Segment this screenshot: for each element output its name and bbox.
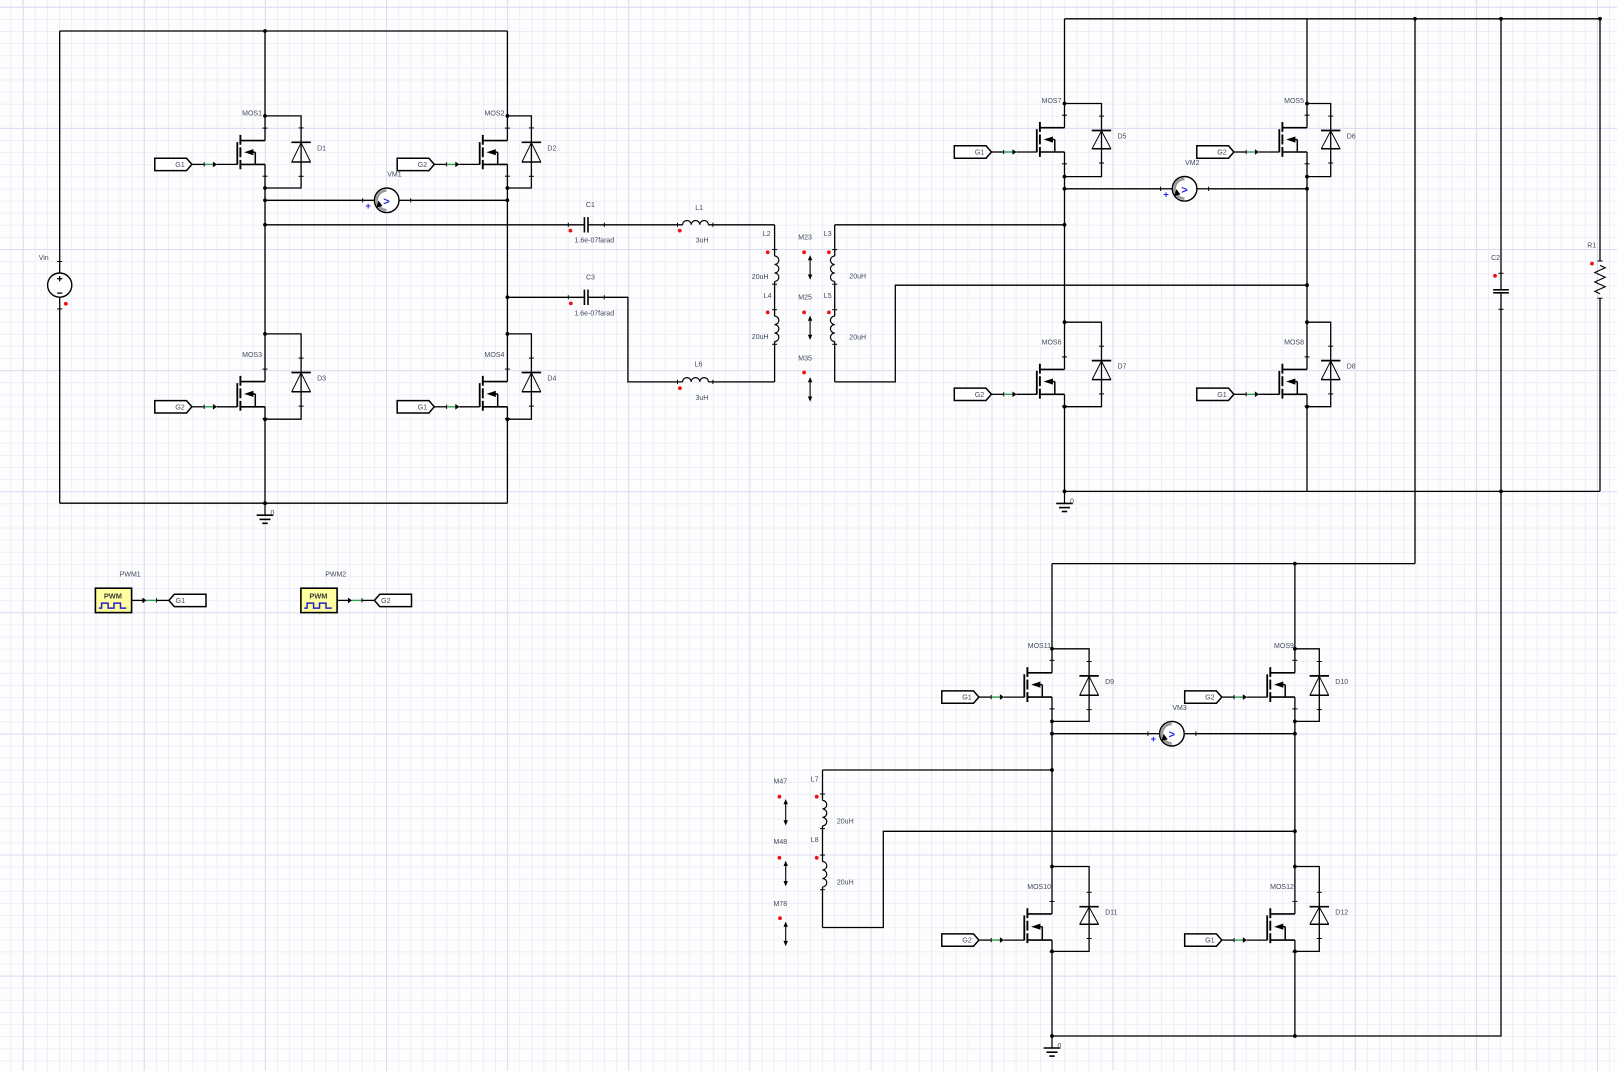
node VM2 right <box>1305 187 1309 191</box>
inductor L8 <box>820 854 825 856</box>
wire bottom rail bridge3 <box>1052 491 1501 1036</box>
node MOS12 drain <box>1293 865 1297 869</box>
node MOS5 drain <box>1305 102 1309 106</box>
svg-text:D12: D12 <box>1335 910 1348 917</box>
diode D5 <box>1092 130 1111 132</box>
node C3 rail at bus B <box>506 295 510 299</box>
gate tag G1 of MOS4 <box>397 401 434 413</box>
wire top rail bridge3 <box>1052 563 1415 565</box>
svg-text:MOS2: MOS2 <box>485 111 505 118</box>
svg-text:M48: M48 <box>774 839 788 846</box>
svg-text:PWM1: PWM1 <box>120 571 141 578</box>
svg-text:>: > <box>1169 729 1175 741</box>
red dot L7 <box>815 795 819 799</box>
node MOS7 drain <box>1063 102 1067 106</box>
svg-text:MOS4: MOS4 <box>485 352 505 359</box>
node MOS2 source <box>506 186 510 190</box>
pwm source PWM2 with tag G2 <box>301 588 337 612</box>
wire diode branch D3 <box>265 334 301 419</box>
coupling M35 <box>809 379 811 400</box>
node MOS8 drain <box>1305 320 1309 324</box>
node C2 bottom <box>1499 490 1503 494</box>
gate tag G2 of MOS10 <box>942 934 979 946</box>
inductor L7 <box>820 793 825 795</box>
coupling M25 <box>809 318 811 339</box>
node MOS11 source <box>1050 720 1054 724</box>
svg-text:VM2: VM2 <box>1185 160 1200 167</box>
wire L5 return to bridge2 <box>835 285 1307 382</box>
resistor R1 <box>1598 260 1603 262</box>
svg-text:M25: M25 <box>798 295 812 302</box>
capacitor C2 <box>1499 272 1504 274</box>
svg-text:R1: R1 <box>1587 243 1596 250</box>
red dot L3 <box>827 250 831 254</box>
diode D4 <box>522 372 541 374</box>
red dot M23 <box>802 250 806 254</box>
mosfet MOS12 <box>1270 913 1295 915</box>
gate tag G2 of MOS3 <box>155 401 192 413</box>
svg-text:G1: G1 <box>176 596 186 605</box>
svg-text:M23: M23 <box>798 235 812 242</box>
inductor L4 <box>772 309 777 311</box>
svg-text:D7: D7 <box>1118 364 1127 371</box>
svg-text:G1: G1 <box>962 693 972 702</box>
wire bus MOS1-MOS3 leg <box>264 31 266 141</box>
wire winding column L2-L4 <box>774 225 776 256</box>
wire winding column L7-L8 <box>822 770 824 800</box>
mosfet MOS8 <box>1282 368 1307 370</box>
coupling M23 <box>809 257 811 278</box>
pwm source PWM1 with tag G1 <box>95 588 131 612</box>
red dot M25 <box>802 311 806 315</box>
wire top rail bridge1 <box>60 30 508 32</box>
ground bridge1 <box>264 503 266 515</box>
node bus F top <box>1293 562 1297 566</box>
svg-text:+: + <box>1151 734 1157 745</box>
svg-text:MOS9: MOS9 <box>1274 643 1294 650</box>
svg-text:D4: D4 <box>547 376 556 383</box>
diode D7 <box>1092 360 1111 362</box>
node bridge3 rail at bus F <box>1293 1034 1297 1038</box>
svg-text:VM3: VM3 <box>1172 705 1187 712</box>
gate tag G1 of MOS8 <box>1197 388 1234 400</box>
svg-text:D9: D9 <box>1105 679 1114 686</box>
svg-text:MOS6: MOS6 <box>1042 340 1062 347</box>
ground bridge3 <box>1051 1036 1053 1048</box>
svg-text:L2: L2 <box>763 231 771 238</box>
red dot M47 <box>778 795 782 799</box>
svg-text:20uH: 20uH <box>849 274 866 281</box>
node bridge2 ground <box>1063 490 1067 494</box>
capacitor C1 <box>567 223 569 227</box>
node VM1 right <box>506 198 510 202</box>
wire bottom rail bridge1 <box>60 502 508 504</box>
wire L8 return to bridge3 <box>823 831 1295 927</box>
svg-text:G1: G1 <box>1205 936 1215 945</box>
svg-text:M47: M47 <box>774 778 788 785</box>
inductor L1 <box>677 223 679 227</box>
mosfet MOS6 <box>1040 368 1065 370</box>
wire L7 feed to bridge3 <box>823 769 1053 771</box>
node L7 feed at bus E <box>1050 768 1054 772</box>
wire left branch Vin <box>59 31 61 273</box>
red dot M78 <box>778 916 782 920</box>
wire top rail bridge2 <box>1065 18 1601 20</box>
svg-text:D5: D5 <box>1118 134 1127 141</box>
inductor L5 <box>832 309 837 311</box>
mosfet MOS9 <box>1270 672 1295 674</box>
node R1 top <box>1598 17 1602 21</box>
svg-text:G2: G2 <box>975 390 985 399</box>
svg-text:G1: G1 <box>418 402 428 411</box>
wire diode branch D1 <box>265 116 301 188</box>
node VM3 left <box>1050 732 1054 736</box>
wire diode branch D7 <box>1065 322 1102 407</box>
node MOS3 drain <box>263 332 267 336</box>
node C2 top <box>1499 17 1503 21</box>
gate tag G2 of MOS6 <box>954 388 991 400</box>
svg-text:G1: G1 <box>175 160 185 169</box>
node VM2 left <box>1063 187 1067 191</box>
svg-text:20uH: 20uH <box>849 334 866 341</box>
inductor L3 <box>832 249 837 251</box>
red dot M35 <box>802 371 806 375</box>
inductor L6 <box>677 380 679 384</box>
svg-text:VM1: VM1 <box>387 171 402 178</box>
node MOS10 source <box>1050 950 1054 954</box>
red dot L1 terminal <box>678 229 682 233</box>
svg-text:G2: G2 <box>1217 148 1227 157</box>
svg-text:D6: D6 <box>1347 134 1356 141</box>
svg-text:MOS1: MOS1 <box>242 111 262 118</box>
wire diode branch D5 <box>1065 104 1102 177</box>
wire winding column L3-L5 <box>834 225 836 256</box>
svg-text:0: 0 <box>271 510 275 517</box>
node link at top rail <box>1413 17 1417 21</box>
wire bus MOS2-MOS4 leg <box>506 31 508 141</box>
wire diode branch D4 <box>507 334 531 419</box>
svg-text:MOS10: MOS10 <box>1027 884 1051 891</box>
diode D8 <box>1321 360 1340 362</box>
gate tag G1 of MOS12 <box>1185 934 1222 946</box>
coupling M78 <box>785 924 787 945</box>
diode D11 <box>1079 906 1098 908</box>
mosfet MOS7 <box>1040 127 1065 129</box>
wire diode branch D10 <box>1295 649 1319 722</box>
red dot C1 terminal <box>569 229 573 233</box>
node bridge1 ground <box>263 501 267 505</box>
svg-text:20uH: 20uH <box>837 819 854 826</box>
svg-text:20uH: 20uH <box>752 334 769 341</box>
red dot C2 <box>1493 274 1497 278</box>
svg-text:G2: G2 <box>962 936 972 945</box>
red dot R1 <box>1590 262 1594 266</box>
node L3 feed at bus C <box>1063 223 1067 227</box>
mosfet MOS4 <box>483 381 508 383</box>
gate tag G2 of MOS2 <box>397 158 434 170</box>
red dot L8 <box>815 856 819 860</box>
wire C1-L1 rail <box>265 224 584 226</box>
wire diode branch D9 <box>1052 649 1089 722</box>
node MOS4 source <box>506 417 510 421</box>
node bus A top <box>263 29 267 33</box>
wire diode branch D12 <box>1295 867 1319 952</box>
svg-text:MOS3: MOS3 <box>242 352 262 359</box>
capacitor C2 branch <box>1500 19 1502 290</box>
svg-text:L1: L1 <box>695 205 703 212</box>
svg-text:D3: D3 <box>317 376 326 383</box>
capacitor C3 <box>567 295 569 299</box>
wire diode branch D2 <box>507 116 531 188</box>
svg-text:L5: L5 <box>824 293 832 300</box>
red dot L5 <box>827 311 831 315</box>
wire bus MOS11-MOS10 leg <box>1051 564 1053 673</box>
svg-text:C2: C2 <box>1491 255 1500 262</box>
node L5 return at bus D <box>1305 283 1309 287</box>
svg-text:L3: L3 <box>824 231 832 238</box>
wire diode branch D6 <box>1307 104 1331 177</box>
svg-text:1.6e-07farad: 1.6e-07farad <box>575 238 615 245</box>
diode D9 <box>1079 675 1098 677</box>
node MOS8 source <box>1305 405 1309 409</box>
node MOS4 drain <box>506 332 510 336</box>
node C1 rail at bus A <box>263 223 267 227</box>
node MOS5 source <box>1305 175 1309 179</box>
svg-text:>: > <box>1181 184 1187 196</box>
svg-text:L4: L4 <box>764 293 772 300</box>
coupling M48 <box>785 863 787 885</box>
svg-text:G2: G2 <box>381 596 391 605</box>
ground bridge2 <box>1064 491 1066 503</box>
svg-text:MOS7: MOS7 <box>1042 98 1062 105</box>
svg-text:MOS12: MOS12 <box>1270 884 1294 891</box>
svg-text:MOS5: MOS5 <box>1284 98 1304 105</box>
node MOS6 source <box>1063 405 1067 409</box>
wire bus MOS5-MOS8 leg <box>1306 19 1308 128</box>
voltmeter VM1 <box>362 198 364 202</box>
node MOS1 drain <box>263 114 267 118</box>
voltage source Vin <box>57 261 62 263</box>
svg-text:MOS11: MOS11 <box>1028 643 1051 650</box>
mosfet MOS11 <box>1027 672 1052 674</box>
svg-text:D11: D11 <box>1105 910 1117 917</box>
wire bottom rail bridge2 <box>1065 490 1601 492</box>
inductor L2 <box>772 249 777 251</box>
node VM1 left <box>263 198 267 202</box>
wire diode branch D8 <box>1307 322 1331 407</box>
svg-text:PWM2: PWM2 <box>325 571 346 578</box>
svg-text:D10: D10 <box>1335 679 1348 686</box>
svg-text:G2: G2 <box>175 402 185 411</box>
diode D6 <box>1321 130 1340 132</box>
svg-text:M78: M78 <box>774 901 788 908</box>
svg-text:PWM: PWM <box>309 591 327 600</box>
red dot L2 <box>766 250 770 254</box>
wire bus MOS7-MOS6 leg <box>1064 19 1066 128</box>
svg-text:D8: D8 <box>1347 364 1356 371</box>
svg-text:G1: G1 <box>1217 390 1227 399</box>
diode D3 <box>291 372 310 374</box>
svg-text:PWM: PWM <box>104 591 122 600</box>
mosfet MOS5 <box>1282 127 1307 129</box>
svg-text:+: + <box>1163 189 1169 200</box>
mosfet MOS1 <box>240 140 265 142</box>
svg-text:3uH: 3uH <box>696 238 709 245</box>
red dot L6 terminal <box>678 386 682 390</box>
node MOS6 drain <box>1063 320 1067 324</box>
node MOS11 drain <box>1050 647 1054 651</box>
wire link top rails <box>1414 19 1416 564</box>
svg-text:3uH: 3uH <box>696 395 709 402</box>
svg-text:D2: D2 <box>547 145 556 152</box>
node MOS12 source <box>1293 950 1297 954</box>
svg-text:0: 0 <box>1070 498 1074 505</box>
svg-text:Vin: Vin <box>39 255 49 262</box>
svg-text:M35: M35 <box>798 356 812 363</box>
red dot L4 <box>766 311 770 315</box>
node bridge3 ground <box>1050 1034 1054 1038</box>
svg-text:C1: C1 <box>586 202 595 209</box>
diode D2 <box>522 141 541 143</box>
svg-text:0: 0 <box>1058 1043 1062 1050</box>
mosfet MOS3 <box>240 381 265 383</box>
gate tag G1 of MOS11 <box>942 691 979 703</box>
wire right drop to R1 <box>1599 19 1601 261</box>
svg-text:G2: G2 <box>418 160 428 169</box>
wire bus MOS9-MOS12 leg <box>1294 564 1296 673</box>
svg-text:20uH: 20uH <box>837 880 854 887</box>
mosfet MOS2 <box>483 140 508 142</box>
svg-text:1.6e-07farad: 1.6e-07farad <box>574 311 614 318</box>
node VM3 right <box>1293 732 1297 736</box>
diode D10 <box>1310 675 1329 677</box>
red dot C3 terminal <box>569 302 573 306</box>
node MOS9 source <box>1293 720 1297 724</box>
svg-text:MOS8: MOS8 <box>1284 340 1304 347</box>
wire L3 feed to bridge2 <box>835 224 1065 226</box>
wire voltmeter VM1 row <box>265 199 363 201</box>
node MOS7 source <box>1063 175 1067 179</box>
svg-text:G2: G2 <box>1205 693 1215 702</box>
red dot Vin terminal <box>64 302 68 306</box>
voltmeter VM2 <box>1160 187 1162 191</box>
gate tag G2 of MOS5 <box>1197 146 1234 158</box>
node L8 return at bus F <box>1293 829 1297 833</box>
wire diode branch D11 <box>1052 867 1089 952</box>
svg-text:20uH: 20uH <box>752 274 769 281</box>
svg-text:L6: L6 <box>695 362 703 369</box>
wire C3 rail <box>507 296 584 298</box>
svg-text:C3: C3 <box>586 275 595 282</box>
svg-text:L8: L8 <box>811 837 819 844</box>
wire voltmeter VM3 row <box>1052 733 1148 735</box>
coupling M47 <box>785 801 787 824</box>
voltmeter VM3 <box>1147 732 1149 736</box>
diode D12 <box>1310 906 1329 908</box>
node MOS1 source <box>263 186 267 190</box>
red dot M48 <box>778 856 782 860</box>
gate tag G1 of MOS1 <box>155 158 192 170</box>
diode D1 <box>291 141 310 143</box>
svg-text:D1: D1 <box>317 145 326 152</box>
svg-text:+: + <box>365 201 371 212</box>
node MOS9 drain <box>1293 647 1297 651</box>
gate tag G2 of MOS9 <box>1185 691 1222 703</box>
svg-text:G1: G1 <box>975 148 985 157</box>
gate tag G1 of MOS7 <box>954 146 991 158</box>
svg-text:>: > <box>383 196 389 208</box>
node MOS10 drain <box>1050 865 1054 869</box>
svg-text:L7: L7 <box>811 776 819 783</box>
wire voltmeter VM2 row <box>1065 188 1161 190</box>
node MOS2 drain <box>506 114 510 118</box>
node MOS3 source <box>263 417 267 421</box>
mosfet MOS10 <box>1027 913 1052 915</box>
